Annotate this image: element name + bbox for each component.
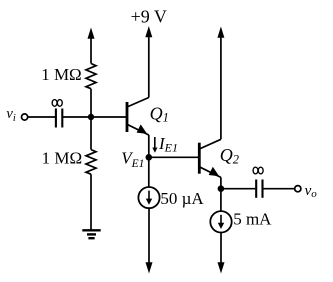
wire R1 to node A: [90, 89, 92, 117]
wire R2 to ground: [90, 174, 92, 230]
wire I2 to negative supply: [220, 233, 222, 264]
wire I1 to negative supply: [148, 208, 150, 263]
svg-text:+9 V: +9 V: [131, 6, 167, 26]
current arrow IE1: [152, 137, 157, 153]
resistor R1 1 MOhm: [86, 64, 96, 89]
wire node VE1 to I1: [148, 157, 150, 187]
+9V supply arrow (Q1 collector): [145, 26, 152, 37]
label infinity C1: [52, 100, 62, 107]
input terminal vi: [22, 114, 28, 120]
wire node A to Q1 base: [91, 116, 127, 118]
transistor Q2: [199, 139, 221, 177]
output terminal vo: [295, 186, 301, 192]
capacitor C2: [256, 180, 262, 198]
node A junction dot: [88, 114, 94, 120]
node VE1 junction dot: [146, 154, 153, 161]
svg-text:1 MΩ: 1 MΩ: [41, 65, 81, 84]
svg-text:5 mA: 5 mA: [233, 210, 272, 229]
wire C1 to node A: [62, 116, 91, 118]
wire vi to C1: [28, 116, 55, 118]
ground: [82, 230, 100, 238]
resistor R2 1 MOhm: [86, 150, 96, 175]
label infinity C2: [253, 167, 263, 174]
node B junction dot: [218, 185, 225, 192]
wire Q1 emitter to node VE1: [148, 135, 150, 157]
capacitor C1: [56, 109, 62, 128]
wire node VE1 to Q2 base: [149, 156, 200, 158]
wire C2 to vo terminal: [263, 188, 295, 190]
negative supply arrow (I2): [218, 262, 225, 273]
svg-text:1 MΩ: 1 MΩ: [42, 148, 83, 167]
+9V supply arrow (left branch): [88, 28, 95, 64]
current source I2 5mA: [210, 211, 231, 232]
transistor Q1: [127, 98, 149, 136]
+9V supply arrow (Q2 collector): [217, 27, 224, 38]
wire Q2 collector to +9V: [220, 38, 222, 140]
negative supply arrow (I1): [146, 262, 153, 273]
wire Q2 emitter to node B: [220, 177, 222, 211]
wire Q1 collector to +9V: [148, 37, 150, 98]
wire node A to R2: [90, 117, 92, 150]
svg-text:50 µA: 50 µA: [160, 189, 204, 208]
current source I1 50uA: [138, 187, 159, 208]
wire node B to C2: [221, 188, 255, 190]
